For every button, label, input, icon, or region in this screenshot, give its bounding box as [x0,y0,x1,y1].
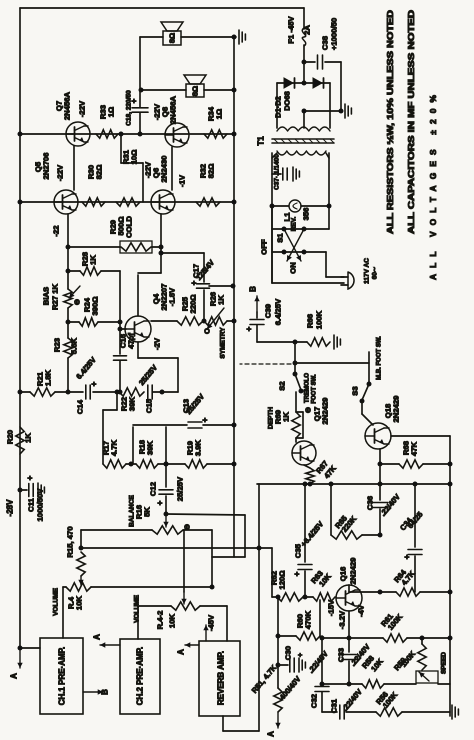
svg-text:-15V: -15V [327,599,336,616]
svg-text:39K: 39K [128,397,137,412]
wire Q4 collector up [137,275,139,316]
svg-text:R66: R66 [306,314,315,328]
svg-text:A: A [177,649,186,655]
resistor R58 10K [362,680,384,688]
resistor R64 4.7K [349,591,396,593]
svg-text:C14: C14 [76,399,85,414]
capacitor C16 47pf [119,329,121,354]
svg-text:BIAS: BIAS [42,287,51,305]
potentiometer R26 1K symmetry [204,317,227,325]
svg-text:O: O [203,328,212,334]
potentiometer R4 10K VOLUME ch1 [66,583,91,591]
wire top supply run to fuse [20,7,304,9]
svg-text:10K: 10K [75,596,84,611]
svg-text:-22V: -22V [56,164,65,181]
resistor R61 100K [383,634,407,642]
svg-text:S2: S2 [278,381,287,390]
capacitor C32 .22/40V [315,686,329,688]
ground C37 [292,167,294,181]
svg-text:A: A [10,673,19,679]
svg-text:25/25V: 25/25V [176,476,185,501]
resistor R25 220ohm [151,320,177,322]
svg-text:C39: C39 [264,304,273,318]
svg-text:60∼: 60∼ [372,266,379,279]
svg-text:+: + [156,500,165,505]
svg-text:FOOT SW.: FOOT SW. [312,374,318,404]
capacitor C31 .22/40V [322,711,337,713]
capacitor C34 64/25 [414,484,416,547]
svg-text:+: + [26,475,35,480]
svg-text:C32: C32 [310,694,319,708]
svg-text:R27 1K: R27 1K [51,284,60,311]
wire output node step to Q6 base [120,134,122,163]
svg-text:.22/40V: .22/40V [306,649,330,675]
wire R18 riser [132,427,134,464]
svg-text:A: A [93,634,102,640]
svg-text:R20: R20 [6,430,15,444]
resistor R28 1K [67,247,69,289]
ground R66 [333,335,335,349]
svg-text:47K: 47K [410,442,419,457]
box CH.1 PRE-AMP [40,638,83,714]
wire primary right [328,153,330,229]
wire reverb out riser [222,716,224,731]
switch S1 on-off [271,206,273,283]
svg-text:470K: 470K [304,610,313,629]
svg-text:S3: S3 [351,386,360,395]
wire C13 row [133,424,187,426]
svg-text:VOLUME: VOLUME [134,594,141,622]
wire Q16 collector to R64 row [348,585,350,592]
svg-text:2A: 2A [303,25,312,35]
resistor R51 4.7K [274,688,282,712]
svg-text:10Ω: 10Ω [130,150,139,165]
svg-text:1K: 1K [217,295,226,305]
svg-text:356: 356 [302,208,311,221]
capacitor C37 .1/1400 [272,173,281,175]
node A arrow ch2 in [100,644,120,646]
svg-text:.22/40V: .22/40V [378,492,402,518]
wire B row [257,341,307,343]
wire primary left [271,153,273,283]
svg-text:-45V: -45V [207,614,216,631]
svg-text:C37·.1/1400: C37·.1/1400 [274,154,281,190]
svg-text:2N2430: 2N2430 [160,156,169,183]
svg-text:Q16: Q16 [339,567,348,582]
capacitor C30 400/40V [276,663,281,668]
resistor R56 100K [376,708,402,716]
svg-text:+1000/50: +1000/50 [330,18,339,50]
svg-text:5.6K: 5.6K [70,337,79,354]
svg-text:TREMOLO: TREMOLO [305,373,311,403]
svg-text:+: + [90,381,99,386]
capacitor C13 25/25V [188,421,202,423]
svg-text:CH.1 PRE·AMP.: CH.1 PRE·AMP. [58,647,67,706]
svg-text:C33: C33 [337,648,346,662]
capacitor C38 1000/50 [304,61,315,63]
capacitor C18 220/50 [139,37,141,107]
svg-text:Θ: Θ [183,524,192,530]
svg-text:S1: S1 [276,233,285,243]
svg-text:-22V: -22V [78,100,87,117]
ground C30 [298,658,300,672]
svg-text:1Ω: 1Ω [215,109,224,119]
svg-text:B: B [249,286,258,292]
svg-text:DO68: DO68 [283,91,292,111]
capacitor C12 25/25V [159,489,173,491]
potentiometer R59 100K SPEED [418,644,426,670]
svg-text:+: + [403,554,412,559]
wire R61 row [322,637,383,639]
wire Q7 base link to Q5 [73,146,75,190]
svg-text:120Ω: 120Ω [278,571,287,590]
capacitor C11 1000/50V [18,488,23,493]
wire Q5 emitter down [67,214,69,247]
resistor R20 1K [16,427,24,454]
svg-text:C18, 220/50: C18, 220/50 [126,90,133,126]
wire Q4 emitter to row [137,342,139,358]
svg-text:100K: 100K [315,310,324,329]
lamp L1 356 [272,205,289,207]
resistor R22 39K [119,388,144,396]
svg-text:117V AC: 117V AC [364,258,371,284]
resistor R23 5.6K [64,338,72,358]
svg-text:OFF: OFF [260,239,269,255]
ground C11 [37,483,39,497]
wire secondary left [276,83,278,128]
svg-text:C30: C30 [284,646,293,660]
svg-text:Θ: Θ [73,299,82,305]
svg-text:R23: R23 [53,338,62,352]
wire Q6 emitter down [160,214,162,247]
resistor R62 120ohm [277,593,303,601]
resistor R15 470ohm [77,552,85,576]
svg-text:-3.2V: -3.2V [338,610,347,629]
svg-text:+6.4/25V: +6.4/25V [299,520,325,549]
svg-text:-2V: -2V [153,337,162,350]
wire R4-2 wiper from balance [183,530,185,592]
svg-text:100K: 100K [399,649,418,669]
node fuse/C38 [302,60,307,65]
wire Q8 base link to Q6 [171,147,173,190]
wire to plug lower [272,282,344,284]
transformer core [272,138,334,140]
svg-text:-1.8V: -1.8V [168,287,177,306]
resistor R21 1.8K [30,388,55,396]
capacitor C33 .22/40V [348,638,350,652]
svg-text:2N2706: 2N2706 [42,153,51,180]
transistor Q4 2N2207 [125,316,151,342]
svg-text:C36: C36 [366,496,375,510]
svg-text:C12: C12 [149,482,158,496]
svg-text:6.4/25V: 6.4/25V [274,298,283,325]
wire R15 node to R62 feed line [80,530,82,548]
wire C12 riser [165,427,167,487]
svg-text:-4V: -4V [357,604,366,617]
transistor Q18 2N2429 [365,423,391,449]
switch S2 tremolo footswitch [293,372,298,377]
wire feedback from C12 node [166,514,245,515]
svg-text:C11: C11 [27,497,36,511]
svg-text:SPEED: SPEED [441,652,448,674]
svg-text:82Ω: 82Ω [95,165,104,180]
capacitor C39 6.4/25V [256,312,258,318]
resistor R68 47K [379,449,381,464]
wire rail to ch1 [20,647,40,649]
diode D2 [304,82,330,84]
resistor R60 470K [276,634,281,639]
capacitor C17 125/4V [203,253,205,282]
node rectifier out [302,81,307,86]
transistor Q16 2N2429 [336,585,362,611]
capacitor C36 .22/40V [379,464,381,500]
svg-text:R.4-2: R.4-2 [156,611,165,630]
node A arrow reverb in [185,644,199,646]
wire px278 rail [277,597,279,688]
fuse F1 2A [303,8,305,29]
svg-text:T1: T1 [257,136,266,146]
svg-text:25/25V: 25/25V [137,363,159,387]
svg-text:C31: C31 [330,698,339,713]
resistor R30 82ohm [82,198,105,206]
wire ground bus (center) [233,36,235,557]
wire Q16 emitter [348,611,350,638]
svg-text:8Ω: 8Ω [191,86,200,96]
svg-text:1K: 1K [89,255,98,265]
resistor R34 1ohm [204,130,227,138]
wire oscillator left rail [321,636,323,684]
wire to plug upper [325,252,327,277]
svg-text:COLD: COLD [125,216,134,238]
svg-text:M.B. FOOT SW.: M.B. FOOT SW. [377,336,383,380]
speaker SP1 8ohm [163,31,181,45]
svg-text:C38: C38 [321,35,330,50]
svg-text:A: A [267,731,276,737]
svg-text:1000/50V: 1000/50V [36,488,45,522]
wire R58 row [322,683,362,685]
resistor R65 220K [330,484,332,535]
potentiometer R27 1K BIAS [64,289,72,308]
transistor Q8 2N456A [165,123,189,147]
ground power supply [344,104,346,118]
svg-text:+: + [245,326,254,331]
switch arm S1a [287,229,304,261]
transformer T1 [277,127,330,131]
wire R28 bus down to Q4 base [119,271,121,329]
box CH.2 PRE-AMP [120,639,160,714]
svg-text:3.9K: 3.9K [194,439,203,456]
svg-text:B: B [101,689,110,695]
resistor R31 10ohm [116,198,140,206]
transistor Q17 2N2429 [292,441,316,465]
svg-text:2N456A: 2N456A [169,95,178,124]
svg-text:6.4/25V: 6.4/25V [74,355,98,381]
resistor R18 39K [136,460,158,468]
svg-text:39K: 39K [146,441,155,456]
ground speaker [238,30,240,44]
svg-text:1K: 1K [24,433,33,443]
wire C17 down to symmetry node [203,290,205,321]
wire C17 to ground bus [209,285,233,287]
box REVERB AMP [199,641,240,716]
resistor R24 390ohm [68,321,79,323]
svg-text:220Ω: 220Ω [189,295,198,314]
wire tremolo mid row [257,483,450,485]
svg-text:.22/40V: .22/40V [340,687,364,713]
capacitor C35 6.4/25V [304,484,306,562]
svg-text:R15, 470: R15, 470 [66,526,75,557]
diode D1 [277,82,304,84]
svg-text:2N2429: 2N2429 [349,558,358,585]
svg-text:-1V: -1V [178,174,187,187]
wire C38 to ground node [340,62,342,111]
resistor R33 1ohm [96,130,118,138]
svg-text:Θ: Θ [304,407,313,413]
svg-text:ON: ON [289,262,298,274]
wire volume to ch1 preamp [62,587,64,638]
wire C17 top [161,252,204,254]
node A arrow tremolo bottom [277,712,279,728]
transistor Q6 2N2430 [151,190,175,214]
svg-text:R51, 4.7K: R51, 4.7K [250,663,279,695]
node B arrow ch1 out [83,691,103,693]
svg-text:1.8K: 1.8K [44,369,53,386]
wire speaker1 row [140,36,163,38]
switch S3 MB footswitch [368,352,370,384]
transistor Q5 2N2706 [54,190,78,214]
svg-text:D1·D2: D1·D2 [274,96,283,118]
resistor R63 10K [313,593,335,601]
svg-text:10K: 10K [168,614,177,629]
svg-text:ALL CAPACITORS IN MF UNLESS NO: ALL CAPACITORS IN MF UNLESS NOTED [406,10,416,234]
svg-text:2N456A: 2N456A [63,91,72,120]
svg-text:2N2429: 2N2429 [321,398,330,425]
svg-text:5K: 5K [143,507,152,517]
wire speaker2 row [141,89,186,91]
node A arrow left rail [19,650,21,668]
svg-text:8Ω: 8Ω [168,33,177,43]
svg-text:82Ω: 82Ω [207,164,216,179]
svg-text:ALL RESISTORS ½W, 10% UNLESS N: ALL RESISTORS ½W, 10% UNLESS NOTED [385,10,395,234]
svg-text:ALL VOLTAGES ±20%: ALL VOLTAGES ±20% [428,94,438,280]
resistor R32 82ohm [196,198,220,206]
svg-text:-28V: -28V [6,499,15,517]
svg-text:400/40V: 400/40V [278,674,303,701]
potentiometer R69 1K DEPTH [292,412,300,438]
transistor Q7 2N456A [66,122,90,146]
wire output row [20,133,233,135]
svg-text:REVERB AMP.: REVERB AMP. [217,651,226,705]
wire secondary right [329,83,331,128]
wire center tap [303,111,305,128]
svg-text:CH.2 PRE·AMP.: CH.2 PRE·AMP. [136,647,145,706]
transformer primary winding [277,151,326,155]
svg-text:+: + [293,571,302,576]
resistor R66 100K [307,338,330,346]
wire balance right to bus jog [211,530,213,587]
supply -45V arrow reverb [205,625,207,641]
resistor R67 47K [304,465,310,468]
capacitor C15 25/25V [147,385,149,399]
svg-text:VOLUME: VOLUME [53,587,60,615]
svg-text:2N2429: 2N2429 [392,396,401,423]
wire R62 feed [271,548,273,597]
potentiometer R16 5K BALANCE [81,529,152,531]
svg-text:+: + [190,280,199,285]
resistor R19 3.9K [166,463,185,465]
svg-text:F1 -45V: F1 -45V [287,15,296,43]
wire R17 left riser jog [116,392,118,410]
capacitor C14 6.4/25V [68,391,83,393]
wire R4-2 to reverb amp [226,606,228,641]
svg-text:C15: C15 [145,398,154,413]
svg-text:1Ω: 1Ω [107,107,116,117]
wire input row [20,391,30,393]
svg-text:+: + [201,417,210,422]
wire driver row [20,201,233,203]
dashed footswitch boundary [240,363,291,365]
wire Q18 collector to rail [391,435,450,437]
svg-text:+: + [298,653,305,657]
speaker SP2 8ohm [186,84,204,97]
svg-text:-22: -22 [52,225,61,236]
resistor R17 4.7K [103,460,126,468]
wire footswitch feed [294,342,296,363]
resistor R29 500ohm COLD [68,246,120,248]
svg-text:1K: 1K [282,412,291,422]
svg-text:SYMETRY: SYMETRY [220,327,227,359]
svg-text:4.7K: 4.7K [110,439,119,456]
wire R60 to Q16 base [319,600,321,636]
switch arm S1b [284,229,301,261]
ground oscillator [451,705,453,719]
ac plug 117V [348,272,354,289]
node B arrow tremolo [256,296,258,312]
wire -28V left rail [19,8,21,648]
svg-text:390Ω: 390Ω [91,297,100,316]
